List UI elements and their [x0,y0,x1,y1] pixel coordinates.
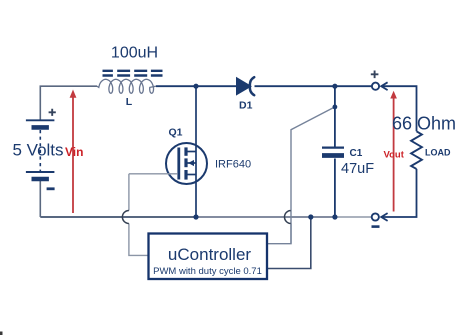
svg-text:5 Volts: 5 Volts [13,141,64,160]
svg-text:L: L [126,96,133,108]
svg-text:IRF640: IRF640 [215,159,251,171]
svg-text:47uF: 47uF [341,161,374,177]
svg-text:C1: C1 [350,148,363,159]
svg-text:LOAD: LOAD [425,148,451,158]
svg-text:100uH: 100uH [111,45,158,62]
svg-text:PWM with duty cycle 0.71: PWM with duty cycle 0.71 [153,266,262,277]
svg-text:D1: D1 [239,100,253,112]
svg-text:Q1: Q1 [169,126,183,138]
svg-text:66 Ohm: 66 Ohm [392,114,456,134]
svg-text:uController: uController [168,245,251,264]
svg-text:Vout: Vout [384,150,405,161]
svg-text:Vin: Vin [65,145,83,159]
